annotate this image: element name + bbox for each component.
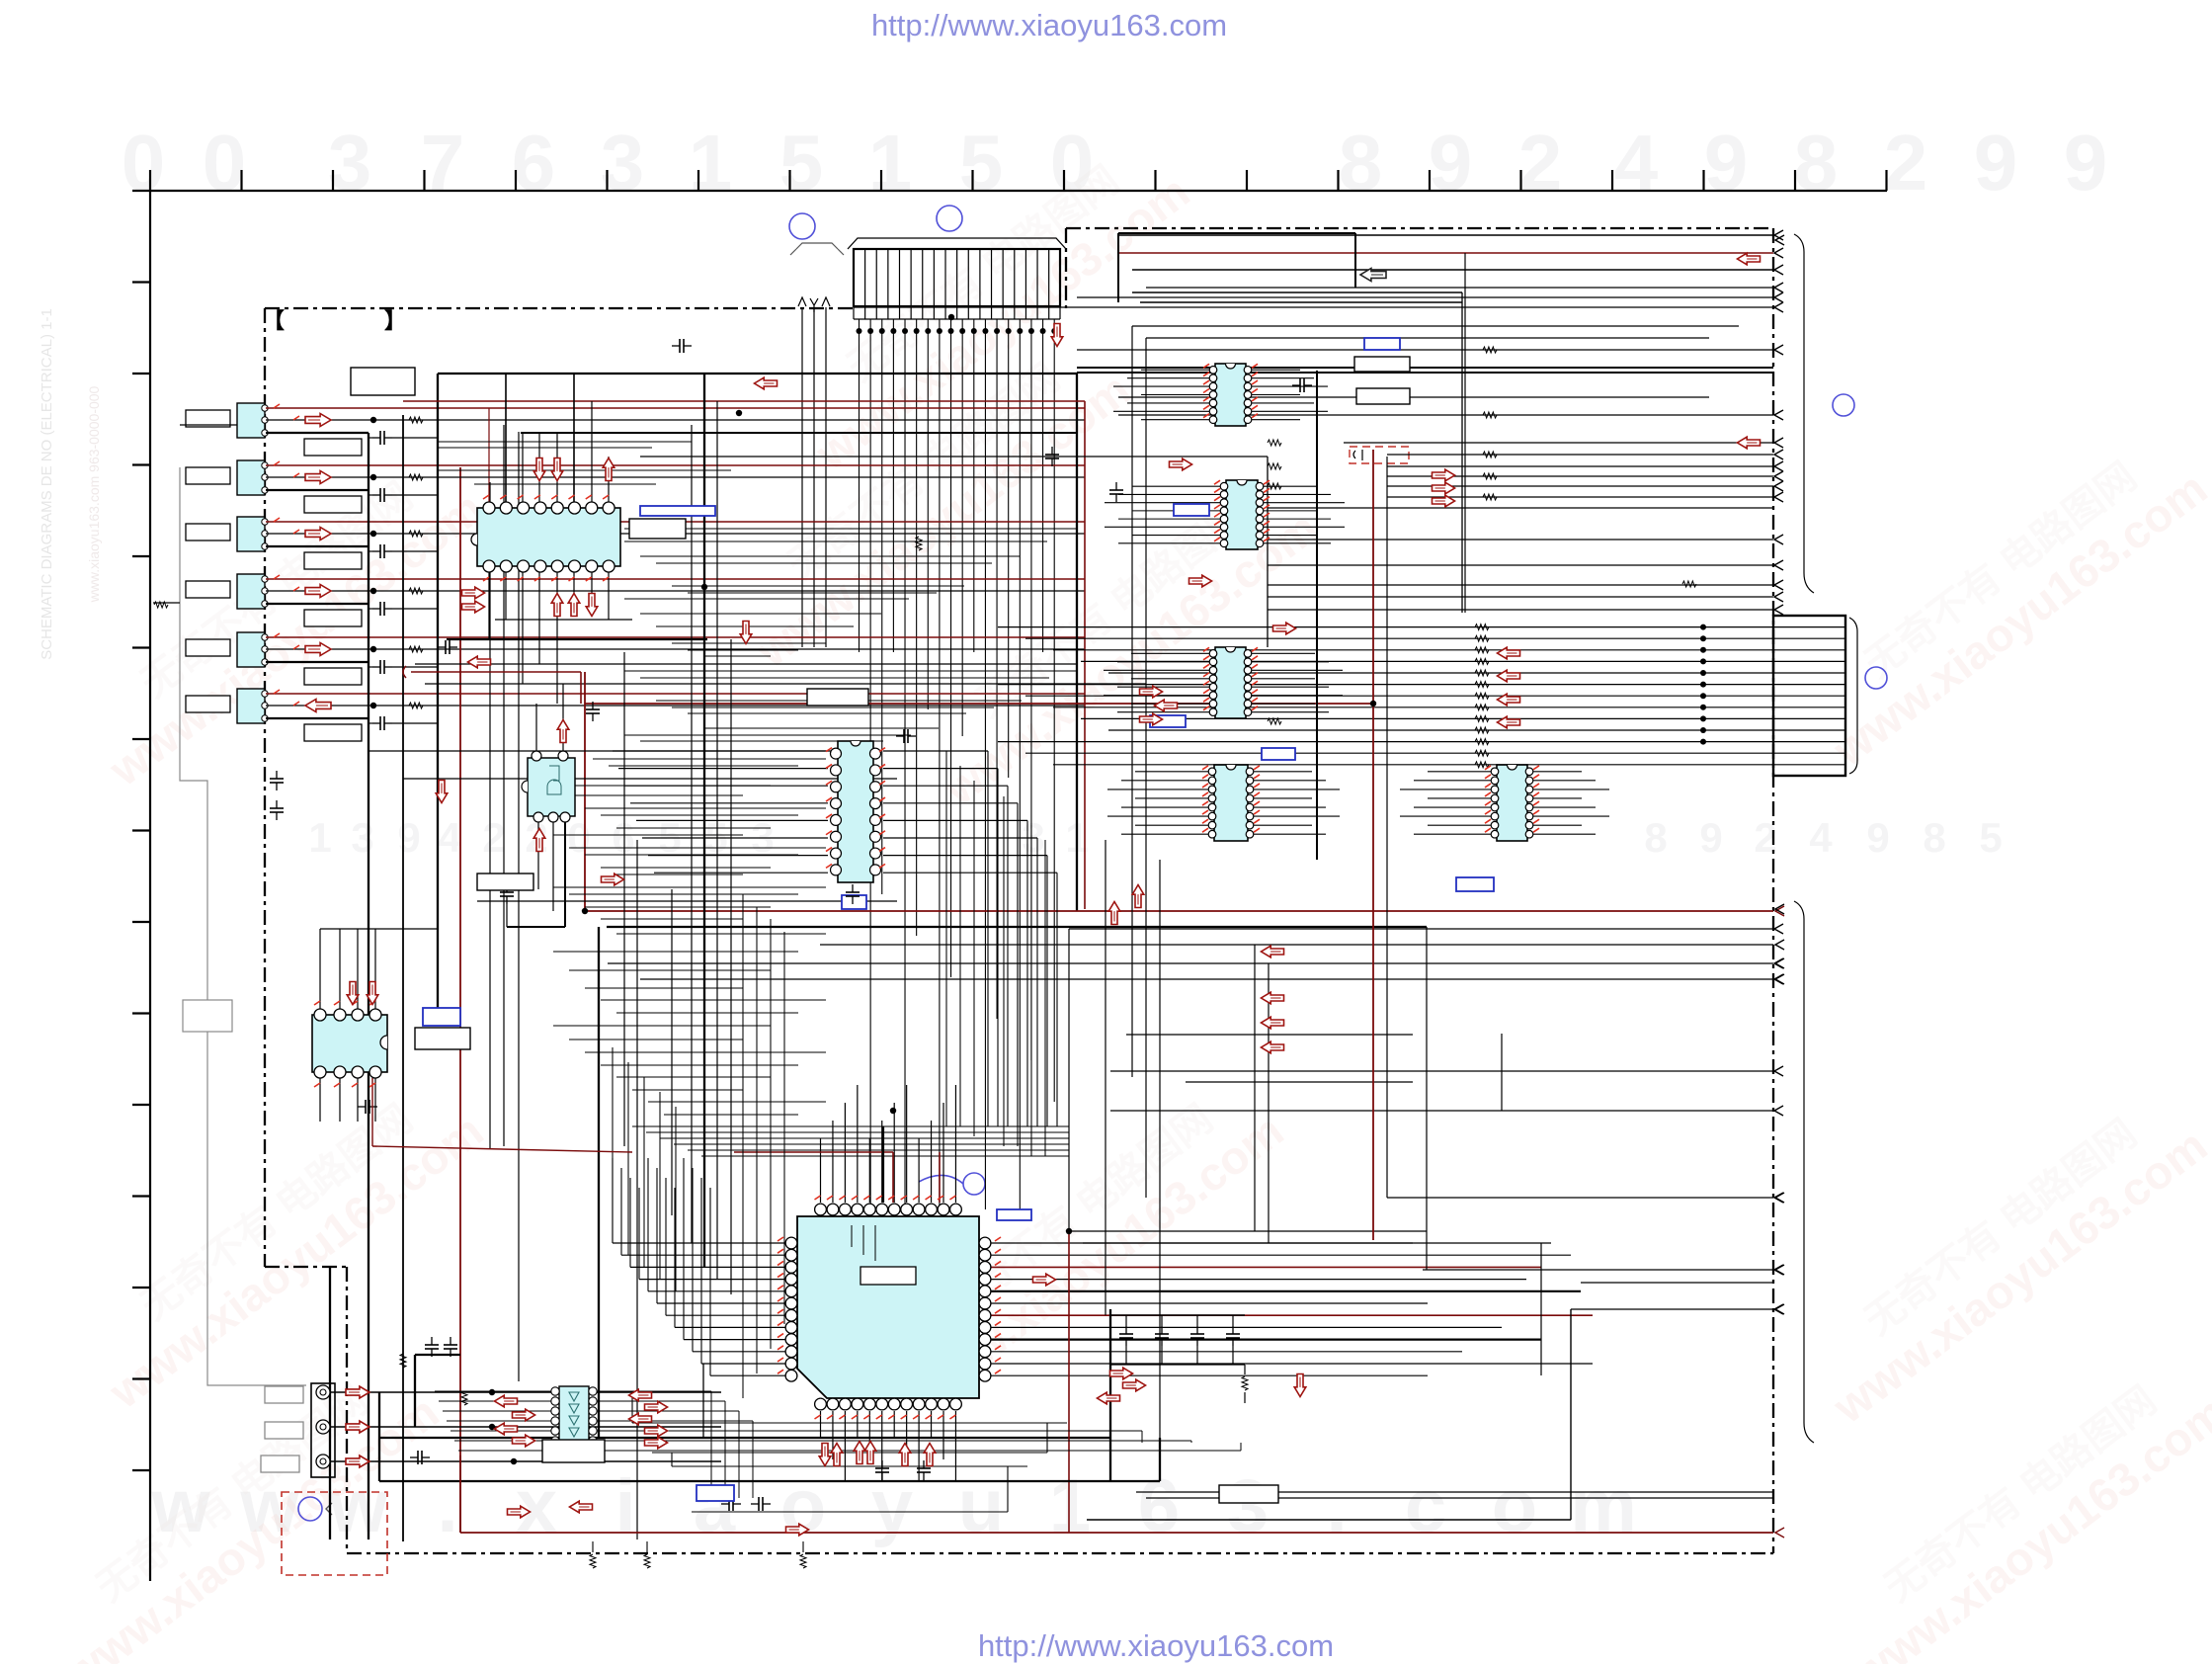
svg-text:4: 4 bbox=[438, 814, 461, 861]
svg-text:http://www.xiaoyu163.com: http://www.xiaoyu163.com bbox=[871, 8, 1227, 42]
svg-text:2: 2 bbox=[1884, 119, 1928, 207]
svg-text:3: 3 bbox=[1227, 1464, 1269, 1548]
svg-text:5: 5 bbox=[779, 119, 824, 207]
svg-text:9: 9 bbox=[2064, 119, 2108, 207]
svg-text:9: 9 bbox=[1704, 119, 1749, 207]
svg-text:2: 2 bbox=[1518, 119, 1563, 207]
svg-text:o: o bbox=[780, 1464, 826, 1548]
svg-text:6: 6 bbox=[512, 119, 556, 207]
svg-text:9: 9 bbox=[1429, 119, 1473, 207]
svg-text:9: 9 bbox=[1699, 814, 1722, 861]
svg-text:m: m bbox=[1570, 1464, 1637, 1548]
svg-text:5: 5 bbox=[959, 119, 1004, 207]
svg-text:1: 1 bbox=[308, 814, 331, 861]
svg-text:8: 8 bbox=[1923, 814, 1945, 861]
svg-text:8: 8 bbox=[1339, 119, 1383, 207]
svg-text:9: 9 bbox=[1866, 814, 1889, 861]
svg-text:9: 9 bbox=[1974, 119, 2018, 207]
svg-text:1: 1 bbox=[1049, 1464, 1091, 1548]
svg-text:4: 4 bbox=[1614, 119, 1659, 207]
svg-text:8: 8 bbox=[1794, 119, 1839, 207]
svg-text:i: i bbox=[614, 1464, 635, 1548]
svg-text:7: 7 bbox=[421, 119, 465, 207]
svg-text:SCHEMATIC DIAGRAMS DE NO (ELEC: SCHEMATIC DIAGRAMS DE NO (ELECTRICAL) 1-… bbox=[39, 308, 55, 660]
svg-text:6: 6 bbox=[612, 814, 634, 861]
svg-text:y: y bbox=[871, 1464, 913, 1548]
svg-text:9: 9 bbox=[397, 814, 420, 861]
svg-text:0: 0 bbox=[122, 119, 166, 207]
svg-text:3: 3 bbox=[601, 119, 645, 207]
svg-text:8: 8 bbox=[1644, 814, 1667, 861]
svg-text:u: u bbox=[958, 1464, 1004, 1548]
svg-text:5: 5 bbox=[1979, 814, 2002, 861]
svg-text:.: . bbox=[1326, 1464, 1347, 1548]
svg-text:http://www.xiaoyu163.com: http://www.xiaoyu163.com bbox=[978, 1628, 1334, 1663]
svg-text:【: 【 bbox=[263, 308, 285, 333]
svg-text:4: 4 bbox=[1809, 814, 1833, 861]
svg-text:0: 0 bbox=[567, 814, 590, 861]
svg-text:2: 2 bbox=[482, 814, 505, 861]
svg-text:】: 】 bbox=[384, 308, 406, 333]
svg-text:0: 0 bbox=[203, 119, 247, 207]
svg-text:o: o bbox=[1492, 1464, 1537, 1548]
svg-text:.: . bbox=[437, 1464, 457, 1548]
svg-text:1: 1 bbox=[689, 119, 733, 207]
svg-text:1: 1 bbox=[868, 119, 913, 207]
svg-text:www.xiaoyu163.com 963-0000-00: www.xiaoyu163.com 963-0000-000 bbox=[86, 385, 102, 603]
svg-text:3: 3 bbox=[328, 119, 372, 207]
svg-text:3: 3 bbox=[351, 814, 373, 861]
svg-text:c: c bbox=[1405, 1464, 1446, 1548]
